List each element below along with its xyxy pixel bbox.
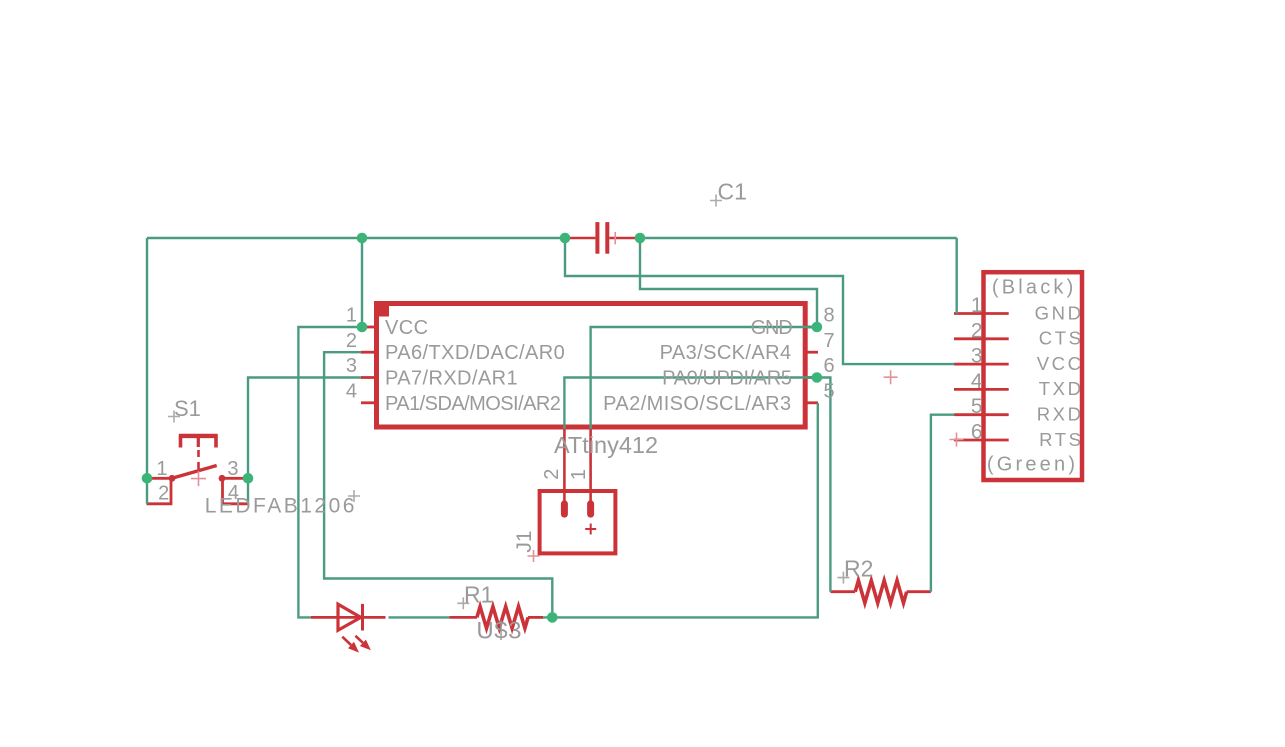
svg-text:PA3/SCK/AR4: PA3/SCK/AR4 [660,342,792,364]
svg-text:GND: GND [1035,302,1084,323]
svg-text:C1: C1 [718,178,747,204]
svg-text:8: 8 [824,305,835,327]
svg-text:R1: R1 [464,582,493,608]
svg-text:CTS: CTS [1039,328,1084,349]
svg-text:2: 2 [971,319,983,342]
svg-text:VCC: VCC [385,317,428,339]
svg-text:RTS: RTS [1039,429,1083,450]
svg-text:PA2/MISO/SCL/AR3: PA2/MISO/SCL/AR3 [603,393,791,415]
svg-text:GND: GND [751,317,793,339]
svg-text:3: 3 [971,345,983,368]
svg-text:1: 1 [971,294,983,317]
svg-text:ATtiny412: ATtiny412 [554,432,658,458]
svg-text:PA1/SDA/MOSI/AR2: PA1/SDA/MOSI/AR2 [385,393,561,415]
svg-text:3: 3 [227,458,238,480]
svg-text:PA7/RXD/AR1: PA7/RXD/AR1 [385,368,518,390]
svg-text:(Green): (Green) [987,454,1078,476]
svg-text:5: 5 [971,395,983,418]
svg-text:PA0/UPDI/AR5: PA0/UPDI/AR5 [662,368,792,390]
svg-text:LEDFAB1206: LEDFAB1206 [205,494,357,517]
svg-text:1: 1 [346,305,357,327]
svg-text:4: 4 [971,370,983,393]
svg-text:S1: S1 [174,396,201,421]
svg-text:TXD: TXD [1039,378,1084,399]
svg-text:3: 3 [346,355,357,377]
svg-text:PA6/TXD/DAC/AR0: PA6/TXD/DAC/AR0 [385,342,565,364]
svg-text:J1: J1 [513,530,536,552]
svg-text:4: 4 [346,381,357,403]
svg-text:VCC: VCC [1037,353,1084,374]
svg-text:7: 7 [824,330,835,352]
svg-text:U$3: U$3 [476,617,522,644]
svg-text:2: 2 [158,483,169,505]
svg-text:R2: R2 [844,556,873,582]
svg-text:2: 2 [541,469,563,480]
svg-text:2: 2 [346,330,357,352]
svg-text:(Black): (Black) [992,277,1077,299]
svg-text:5: 5 [824,381,835,403]
svg-text:1: 1 [156,458,167,480]
svg-text:RXD: RXD [1037,404,1084,425]
svg-text:6: 6 [971,421,983,444]
svg-text:1: 1 [568,469,590,480]
svg-text:6: 6 [824,355,835,377]
